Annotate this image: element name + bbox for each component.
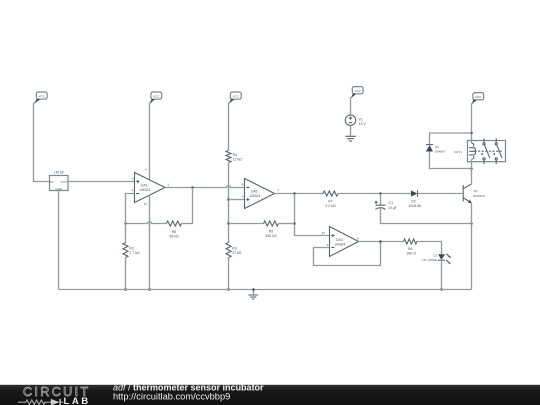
junction divider/OA2 pin5 [227, 198, 230, 201]
resistor R8 [167, 221, 182, 238]
svg-text:Q1: Q1 [474, 189, 478, 193]
resistor R2 [123, 224, 140, 290]
logo resistor symbol [18, 400, 51, 405]
svg-text:IN: IN [50, 180, 53, 184]
net flag VCC node5 (above relay) [471, 93, 483, 105]
wire D2 to Q1 base [418, 193, 463, 195]
wire LM35 OUT to OA1 +in [68, 181, 135, 183]
svg-text:56 kΩ: 56 kΩ [169, 234, 179, 238]
op-amp OA1 LM324 [132, 173, 170, 206]
junction inverting node [124, 222, 127, 225]
op-amp OA2 LM324 [242, 179, 280, 209]
junction C1/emitter node [470, 222, 473, 225]
voltage source V1 12V [345, 97, 366, 136]
wire OA1 pin11 to rail [149, 195, 151, 290]
svg-text:OUT: OUT [61, 180, 68, 184]
junction C1 node [379, 192, 382, 195]
svg-text:3: 3 [132, 176, 134, 180]
junction pin11/rail [148, 288, 151, 291]
svg-text:12 kΩ: 12 kΩ [233, 157, 243, 161]
wire VCC1 to LM35 IN [34, 103, 50, 182]
net flag VCC node1 (top left) [33, 92, 47, 104]
wire output to R8 [182, 188, 193, 224]
svg-text:R8: R8 [172, 230, 177, 234]
wire OA3 out to R6 [359, 241, 404, 243]
svg-text:LTL-307EE: LTL-307EE [422, 258, 437, 262]
svg-text:4: 4 [145, 168, 147, 172]
svg-text:390 kΩ: 390 kΩ [265, 234, 277, 238]
svg-text:9: 9 [327, 243, 329, 247]
svg-text:OA2: OA2 [251, 189, 258, 193]
junction OA1 output [191, 186, 194, 189]
junction D3 bottom [470, 167, 473, 170]
svg-text:C1: C1 [389, 201, 394, 205]
svg-text:2: 2 [132, 188, 134, 192]
svg-text:R5: R5 [269, 229, 274, 233]
wire divider [228, 163, 230, 243]
svg-text:LAB: LAB [64, 396, 91, 405]
svg-text:VCC: VCC [38, 94, 45, 98]
wire OA2 out to R7 [275, 193, 324, 195]
resistor R5 [229, 221, 295, 238]
svg-text:V1: V1 [359, 117, 363, 121]
junction divider/R5 [227, 222, 230, 225]
svg-text:8: 8 [357, 237, 359, 241]
wire to OA2 +in [229, 199, 245, 201]
svg-text:10: 10 [322, 231, 326, 235]
net flag VCC node3 (above R4) [228, 92, 241, 104]
svg-text:D2: D2 [411, 199, 416, 203]
svg-text:10 µF: 10 µF [388, 206, 397, 210]
wire OA3 feedback loop [314, 242, 381, 266]
ground symbol [248, 290, 258, 300]
svg-text:RLY1: RLY1 [454, 150, 462, 154]
wire LED to rail [441, 260, 443, 289]
svg-text:27 kΩ: 27 kΩ [232, 251, 242, 255]
svg-text:R2: R2 [129, 246, 134, 250]
wire Q1 emitter to rail [471, 203, 473, 290]
wire VCC5 to relay coil [471, 103, 473, 143]
svg-text:1: 1 [167, 182, 169, 186]
svg-text:390 Ω: 390 Ω [406, 252, 416, 256]
junction ground/rail [252, 288, 255, 291]
wire R7 to D2 [338, 193, 411, 195]
svg-text:2.2 kΩ: 2.2 kΩ [325, 204, 336, 208]
op-amp OA3 LM324 [322, 227, 359, 257]
svg-text:R4: R4 [233, 153, 238, 157]
net flag VCC node2 (above OA1) [149, 92, 162, 104]
svg-text:VCC: VCC [233, 94, 240, 98]
svg-text:11: 11 [144, 202, 147, 206]
junction D3 top [470, 132, 473, 135]
svg-text:6: 6 [242, 182, 244, 186]
svg-text:http://circuitlab.com/ccvbbp9: http://circuitlab.com/ccvbbp9 [113, 392, 230, 402]
svg-text:LM324: LM324 [335, 242, 346, 246]
junction out7 [293, 192, 296, 195]
resistor R6 [404, 239, 442, 256]
wire node to OA1 pin2 [126, 194, 135, 224]
wire LM35 GND to ground rail [58, 191, 60, 290]
svg-text:R6: R6 [408, 247, 413, 251]
bottom brand bar [0, 383, 540, 405]
svg-text:BC547A: BC547A [474, 194, 486, 198]
transistor Q1 BC547A [463, 184, 486, 203]
junction OA3 out [379, 240, 382, 243]
LED D1 LTL-307EE [422, 253, 451, 264]
svg-text:LM324: LM324 [250, 194, 261, 198]
svg-text:D3: D3 [435, 145, 439, 149]
wire OA1 out to OA2 -in with hop [165, 186, 245, 188]
resistor R4 [226, 151, 242, 163]
svg-text:12 V: 12 V [359, 122, 367, 126]
resistor R7 [323, 191, 338, 208]
logo diode symbol [51, 399, 60, 405]
junction R3/rail [227, 288, 230, 291]
ground under V1 [345, 136, 355, 141]
diode D2 1N4148 [408, 190, 420, 208]
wire relay to Q1 collector [471, 169, 473, 185]
junction R5 right [293, 222, 296, 225]
wire out7 down to OA3 +in [295, 194, 330, 236]
wire VCC2 to OA1 pin4 [149, 103, 151, 181]
svg-text:5: 5 [242, 194, 244, 198]
svg-text:R7: R7 [328, 199, 333, 203]
svg-text:LM 35: LM 35 [54, 171, 64, 175]
svg-text:1N4007: 1N4007 [435, 150, 446, 154]
capacitor C1 [375, 194, 472, 224]
resistor R3 [226, 243, 242, 290]
wire VCC3 to R4 [228, 103, 230, 151]
svg-text:GND: GND [55, 187, 63, 191]
junction R2/rail [124, 288, 127, 291]
svg-text:7: 7 [277, 188, 279, 192]
svg-text:R3: R3 [232, 246, 237, 250]
svg-text:OA3: OA3 [336, 238, 343, 242]
svg-text:D1: D1 [433, 253, 437, 257]
svg-text:VCC: VCC [354, 89, 361, 93]
svg-text:VCC: VCC [475, 95, 482, 99]
junction LED/rail [440, 288, 443, 291]
net flag VCC node4 (above V1) [350, 87, 363, 99]
diode D3 1N4007 snubber [426, 133, 472, 169]
relay RLY1 [454, 138, 505, 168]
temperature sensor LM35 [50, 171, 69, 191]
ground rail [59, 289, 472, 291]
svg-text:1N4148: 1N4148 [408, 204, 420, 208]
svg-text:LM324: LM324 [140, 188, 151, 192]
svg-text:OA1: OA1 [141, 183, 148, 187]
svg-text:VCC: VCC [153, 94, 160, 98]
svg-text:2.7 kΩ: 2.7 kΩ [129, 251, 140, 255]
wire R8 to inverting node with hop [126, 222, 167, 224]
